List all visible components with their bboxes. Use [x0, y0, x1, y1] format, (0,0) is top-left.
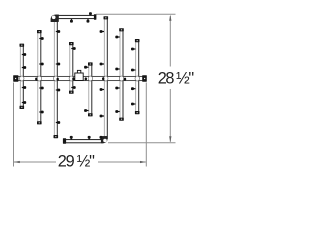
- svg-text:29 ½": 29 ½": [58, 153, 95, 171]
- svg-text:28 ½": 28 ½": [158, 70, 195, 88]
